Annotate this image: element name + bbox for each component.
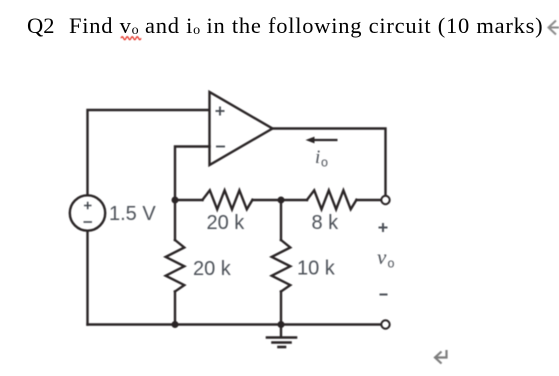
- svg-text:o: o: [321, 156, 328, 170]
- svg-text:8 k: 8 k: [312, 212, 340, 234]
- svg-text:20 k: 20 k: [193, 258, 232, 280]
- svg-text:20 k: 20 k: [207, 212, 246, 234]
- svg-text:v: v: [377, 245, 387, 269]
- svg-text:o: o: [388, 257, 395, 271]
- svg-text:i: i: [315, 147, 320, 168]
- svg-text:10 k: 10 k: [297, 258, 336, 280]
- svg-text:1.5 V: 1.5 V: [109, 203, 156, 225]
